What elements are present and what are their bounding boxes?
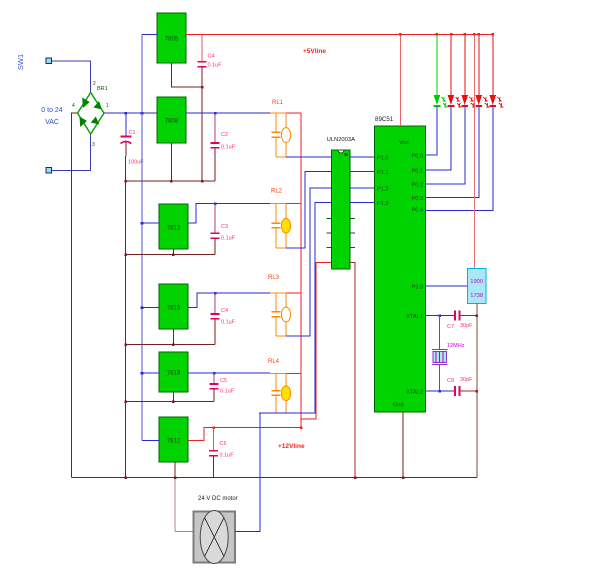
svg-text:P1.1: P1.1 (377, 170, 389, 176)
svg-text:2: 2 (93, 81, 96, 87)
capacitor C2 0.1uF (214, 113, 216, 143)
wire XTAL1 (426, 315, 455, 317)
svg-text:P0.0: P0.0 (411, 154, 423, 160)
svg-text:89C51: 89C51 (375, 116, 394, 123)
wire bridge positive output (104, 112, 157, 114)
svg-text:1: 1 (106, 103, 109, 109)
svg-text:1738: 1738 (470, 293, 483, 299)
wire 7812 input stub (142, 222, 159, 224)
wire RL3 to ULN pin3 (286, 188, 332, 336)
svg-text:0.1uF: 0.1uF (221, 145, 236, 151)
wire 7815 ground pin (172, 329, 174, 345)
svg-text:30pF: 30pF (460, 377, 473, 383)
svg-text:C3: C3 (221, 224, 228, 230)
capacitor C7 30pF (454, 311, 456, 321)
connector J2 (46, 168, 52, 174)
wire U4 to crystal node (476, 303, 478, 477)
svg-text:0.1uF: 0.1uF (208, 63, 223, 69)
svg-text:12MHz: 12MHz (447, 343, 465, 349)
connector J1 (46, 58, 52, 64)
svg-text:0.1uF: 0.1uF (220, 453, 235, 459)
svg-text:ULN2003A: ULN2003A (327, 137, 355, 143)
LED D1 (426, 33, 447, 155)
svg-text:+12Vline: +12Vline (278, 443, 305, 450)
regulator U5 7805 (157, 13, 186, 63)
wire bridge negative to ground bus (72, 113, 78, 477)
svg-text:0.1uF: 0.1uF (221, 236, 236, 242)
LED D4 (426, 33, 489, 197)
main ground bus wire (72, 477, 477, 479)
wire ULN ground (350, 263, 355, 478)
wire RL1 to ULN pin1 (286, 156, 332, 158)
regulator U6 7808 (157, 97, 186, 143)
svg-text:Gnd: Gnd (393, 403, 404, 409)
svg-text:30pF: 30pF (460, 323, 473, 329)
ground bus stage2 (126, 254, 216, 256)
svg-text:P1.0: P1.0 (377, 156, 389, 162)
ground bus stage1 (126, 180, 216, 182)
capacitor C6 0.1uF (213, 428, 215, 451)
wire 7815 input stub (142, 307, 159, 309)
wire 7808 ground pin (170, 143, 172, 181)
wire P3.3 to U4 (426, 285, 468, 287)
capacitor C1 100uF (125, 113, 127, 136)
svg-text:P1.3: P1.3 (377, 201, 389, 207)
svg-text:C6: C6 (220, 441, 227, 447)
regulator U7 7812 (159, 204, 188, 249)
svg-text:P1.2: P1.2 (377, 187, 389, 193)
ground trunk wire (125, 156, 127, 478)
svg-text:1900: 1900 (470, 279, 483, 285)
wire J2 to bridge bottom (52, 134, 91, 171)
regulator U8 7815 (159, 284, 188, 329)
wire J1 to bridge top (52, 61, 91, 94)
capacitor C4 0.1uF (201, 34, 203, 61)
wire 7818 input stub (142, 372, 159, 374)
relay RL4 (268, 359, 301, 413)
regulator U9 7818 (159, 352, 188, 392)
capacitor C8 30pF (454, 386, 456, 396)
regulator U10 7812 (159, 417, 188, 462)
wire Vcc from +5V rail (399, 34, 401, 126)
wire 7818 ground pin (172, 392, 174, 402)
wire 7808 output to RL1 (186, 112, 270, 114)
junction node at C1 (125, 112, 128, 115)
ULN unconnected pin stubs (327, 218, 332, 220)
bridge rectifier BR1 (78, 93, 105, 135)
relay RL3 (268, 275, 301, 336)
svg-text:P3.3: P3.3 (411, 285, 423, 291)
wire ULN COM to +12V (301, 263, 332, 419)
wire 7815 output to RL3 (188, 293, 270, 308)
wire 7812b ground pin to motor (174, 462, 176, 478)
svg-text:0.1uF: 0.1uF (220, 389, 235, 395)
svg-text:7812: 7812 (167, 226, 181, 232)
svg-text:7815: 7815 (167, 306, 181, 312)
svg-text:+5Vline: +5Vline (303, 48, 326, 55)
svg-text:VAC: VAC (45, 119, 59, 126)
capacitor C5 0.1uF (213, 373, 215, 384)
svg-text:7808: 7808 (165, 119, 179, 125)
LED D3 (426, 33, 475, 184)
svg-text:C1: C1 (129, 130, 136, 136)
wire ULN to P1.3 (350, 202, 375, 204)
wire 7805 ground pin (171, 63, 202, 87)
junction node C3 (214, 202, 217, 205)
svg-text:Vcc: Vcc (399, 140, 409, 146)
input bus wire (141, 35, 143, 441)
wire 7812 output to RL2 (188, 204, 270, 223)
+12V rail wire (300, 113, 302, 428)
svg-text:C8: C8 (447, 378, 454, 384)
svg-text:C7: C7 (447, 324, 454, 330)
svg-text:BR1: BR1 (97, 86, 108, 92)
svg-text:7812: 7812 (167, 439, 181, 445)
wire RL4 to ULN pin4 (259, 203, 332, 413)
svg-text:24 V DC motor: 24 V DC motor (198, 496, 238, 502)
svg-text:XTAL1: XTAL1 (406, 314, 423, 320)
driver U2 ULN2003A (332, 150, 351, 269)
wire RL2 to ULN pin2 (286, 172, 332, 248)
LED D2 (426, 33, 461, 170)
wire 7818 output to RL4 (188, 372, 270, 374)
svg-text:C4: C4 (208, 54, 215, 60)
junction node C4b (214, 292, 217, 295)
crystal X1 12MHz (439, 316, 441, 350)
junction node C2 (214, 112, 217, 115)
relay RL1 (270, 100, 301, 157)
wire ULN to P1.2 (350, 187, 375, 189)
svg-text:4: 4 (72, 103, 75, 109)
svg-text:RL2: RL2 (271, 189, 283, 195)
svg-text:C4: C4 (221, 308, 228, 314)
wire ULN to P1.1 (350, 171, 375, 173)
wire ULN to P1.0 (350, 156, 375, 158)
wire 7812 ground pin (173, 249, 175, 255)
+5V rail wire (186, 33, 493, 35)
svg-text:P0.4: P0.4 (411, 208, 423, 214)
junction node at input bus (141, 112, 144, 115)
IC U4 RTC (468, 268, 487, 303)
wire XTAL2 (426, 390, 455, 392)
svg-text:0 to 24: 0 to 24 (41, 107, 63, 114)
svg-text:C2: C2 (221, 132, 228, 138)
svg-text:SW1: SW1 (16, 54, 25, 70)
wire 7812b input stub (142, 440, 159, 442)
wire motor right to RL4 (235, 413, 260, 532)
junction node C6 (212, 427, 215, 430)
svg-text:P0.1: P0.1 (411, 169, 423, 175)
svg-text:7818: 7818 (167, 371, 181, 377)
svg-text:3: 3 (92, 142, 95, 148)
junction node C5 (213, 372, 216, 375)
svg-text:P0.3: P0.3 (411, 196, 423, 202)
svg-text:C5: C5 (220, 378, 227, 384)
LED D5 (426, 33, 503, 210)
ground bus stage4 (126, 401, 215, 403)
relay RL2 (270, 189, 301, 248)
svg-text:P0.2: P0.2 (411, 183, 423, 189)
ground bus stage3 (126, 344, 216, 346)
wire 7805 input (142, 34, 157, 36)
svg-text:RL3: RL3 (268, 275, 280, 281)
wire 7812b output +12V (188, 428, 301, 441)
capacitor C4 0.1uF (214, 293, 216, 314)
junction node C4/gnd (201, 86, 204, 89)
microcontroller U3 89C51 (375, 126, 426, 412)
motor M1 (193, 512, 235, 563)
svg-text:XTAL2: XTAL2 (406, 390, 423, 396)
wire +5V to U4 (473, 34, 475, 268)
svg-text:7805: 7805 (165, 37, 179, 43)
svg-text:RL1: RL1 (272, 100, 284, 106)
capacitor C3 0.1uF (214, 204, 216, 234)
svg-text:0.1uF: 0.1uF (221, 320, 236, 326)
wire 89C51 ground pin (402, 412, 404, 478)
svg-text:RL4: RL4 (268, 359, 280, 365)
